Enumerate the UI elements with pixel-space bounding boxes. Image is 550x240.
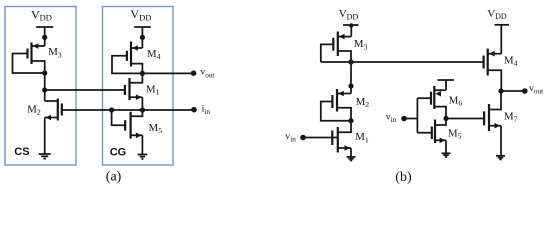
transistor M6 (b) PMOS bbox=[431, 86, 446, 119]
svg-text:VDD: VDD bbox=[130, 7, 151, 22]
block frame CG bbox=[103, 7, 174, 166]
power VDD rail (b right) bbox=[495, 25, 510, 54]
transistor M1 (b) NMOS bbox=[303, 121, 351, 157]
junction node: M6 source / M5 drain bbox=[443, 116, 448, 121]
transistor M5 (b) NMOS bbox=[432, 119, 446, 154]
wire: gate tie M6/M5 bbox=[416, 98, 418, 133]
svg-text:CS: CS bbox=[14, 146, 29, 158]
transistor M7 (b) NMOS bbox=[484, 91, 501, 156]
junction node: mirror net bbox=[348, 59, 353, 64]
wire: CS rail M3 drain to M2 drain bbox=[44, 73, 46, 101]
ground (b left) bbox=[347, 157, 356, 161]
terminal i_in bbox=[191, 107, 197, 113]
power VDD rail (a CS) bbox=[36, 27, 53, 40]
svg-text:vout: vout bbox=[529, 83, 543, 96]
transistor M5 (a) NMOS diode-connected bbox=[112, 110, 143, 155]
wire: v_in to gate tie bbox=[404, 118, 417, 120]
block frame CS bbox=[5, 7, 76, 166]
svg-text:vin: vin bbox=[386, 111, 397, 124]
svg-text:(a): (a) bbox=[106, 170, 122, 185]
junction node: v_out (b) bbox=[498, 88, 503, 93]
svg-text:M4: M4 bbox=[504, 55, 518, 68]
transistor M2 (b) diode-connected bbox=[321, 89, 351, 121]
svg-text:(b): (b) bbox=[395, 170, 412, 185]
junction node: M2 source / M1 drain bbox=[348, 118, 353, 123]
ground (b right) bbox=[496, 156, 505, 160]
junction node: M3 drain / gate loop bbox=[42, 70, 47, 75]
svg-text:M2: M2 bbox=[27, 103, 41, 116]
svg-text:vout: vout bbox=[200, 67, 214, 80]
transistor M1 (a) NMOS bbox=[125, 73, 142, 110]
svg-text:VDD: VDD bbox=[487, 8, 507, 21]
svg-text:M3: M3 bbox=[354, 38, 368, 51]
svg-text:M1: M1 bbox=[355, 131, 369, 144]
terminal v_out (b) bbox=[522, 88, 528, 94]
svg-text:M7: M7 bbox=[504, 111, 518, 124]
ground (a CG) bbox=[138, 155, 148, 159]
svg-text:vin: vin bbox=[285, 131, 296, 144]
junction node: tap to M1 gate bbox=[42, 87, 47, 92]
transistor M3 (a) PMOS diode-connected bbox=[13, 37, 45, 73]
svg-text:VDD: VDD bbox=[339, 8, 359, 21]
transistor M2 (a) NMOS mirrored bbox=[45, 99, 62, 155]
junction node: M1 source / M5 drain bbox=[140, 107, 145, 112]
wire: v_out bbox=[142, 72, 193, 74]
svg-text:CG: CG bbox=[110, 147, 127, 159]
power VDD rail (b middle) bbox=[438, 80, 455, 90]
svg-text:VDD: VDD bbox=[31, 7, 52, 22]
wire: b-left rail down bbox=[350, 62, 352, 94]
ground (b middle) bbox=[442, 153, 451, 157]
wire: node to M1 gate bbox=[45, 89, 125, 91]
wire: i_in net from M2 gate to terminal bbox=[62, 109, 194, 111]
terminal v_out bbox=[191, 70, 197, 76]
transistor M4 (b) PMOS bbox=[484, 49, 502, 92]
transistor M4 (a) PMOS diode-connected bbox=[112, 37, 142, 73]
svg-text:M1: M1 bbox=[146, 83, 160, 96]
power VDD rail (a CG) bbox=[134, 27, 151, 40]
svg-text:M2: M2 bbox=[356, 96, 370, 109]
wire: v_out (b) bbox=[501, 90, 525, 92]
ground (a CS) bbox=[39, 154, 51, 159]
terminal v_in (b left) bbox=[300, 135, 306, 141]
svg-text:M3: M3 bbox=[48, 46, 62, 59]
svg-text:iin: iin bbox=[202, 104, 211, 117]
wire: long net M3 drain to M4 gate bbox=[321, 61, 484, 63]
transistor M3 (b) PMOS diode-connected bbox=[321, 32, 352, 63]
svg-text:M6: M6 bbox=[449, 95, 463, 108]
junction node: M2 drain bbox=[348, 83, 353, 88]
junction node: M5 gate tap bbox=[109, 107, 114, 112]
wire: M6/M5 node to M7 gate bbox=[446, 118, 484, 120]
svg-text:M5: M5 bbox=[448, 127, 462, 140]
terminal v_in (b middle) bbox=[401, 116, 407, 122]
junction node: v_out net bbox=[140, 71, 145, 76]
svg-text:M4: M4 bbox=[147, 48, 161, 61]
svg-text:M5: M5 bbox=[149, 122, 163, 135]
power VDD rail (b left) bbox=[343, 23, 359, 36]
